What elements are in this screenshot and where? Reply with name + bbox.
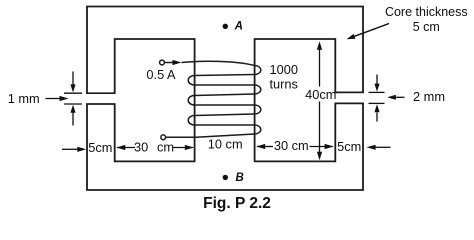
dimension 2 mm up arrow bbox=[376, 113, 378, 122]
terminal T2 bbox=[161, 135, 166, 140]
current direction arrowhead bbox=[173, 60, 182, 65]
svg-text:5cm: 5cm bbox=[337, 139, 361, 154]
dimension 1 mm down arrow bbox=[72, 72, 74, 86]
core outer boundary bbox=[87, 7, 363, 191]
dimension 2 mm upper tick bbox=[369, 91, 385, 93]
core thickness pointer arrow bbox=[355, 24, 390, 37]
svg-text:Core thickness: Core thickness bbox=[385, 5, 468, 19]
svg-text:0.5 A: 0.5 A bbox=[146, 67, 176, 82]
svg-text:cm: cm bbox=[157, 139, 174, 154]
svg-text:Fig. P 2.2: Fig. P 2.2 bbox=[203, 195, 271, 212]
svg-text:turns: turns bbox=[270, 76, 298, 91]
svg-text:10 cm: 10 cm bbox=[208, 136, 243, 151]
air gap G1 upper cap (left leg) bbox=[86, 92, 115, 94]
air gap G2 upper cap (right leg) bbox=[335, 91, 364, 93]
svg-text:A: A bbox=[234, 20, 243, 32]
svg-text:1 mm: 1 mm bbox=[8, 91, 40, 106]
dimension 5cm left pointer arrow bbox=[62, 148, 78, 150]
dimension 40cm arrow bbox=[319, 49, 321, 87]
dimension 2 mm lower tick bbox=[369, 102, 385, 104]
coil N1 winding bbox=[166, 61, 261, 137]
svg-text:1000: 1000 bbox=[270, 62, 298, 77]
dimension 2 mm pointer arrow bbox=[387, 95, 396, 100]
node A marker bbox=[223, 24, 228, 29]
dimension 1 mm upper tick bbox=[64, 92, 82, 94]
dimension 30 cm right arrows bbox=[257, 146, 273, 148]
air gap G2 lower cap (right leg) bbox=[335, 102, 364, 104]
left window bbox=[115, 39, 195, 161]
dimension 30 cm left arrows bbox=[117, 147, 135, 149]
node B marker bbox=[223, 175, 228, 180]
dimension 5cm right pointer arrow bbox=[367, 145, 376, 150]
wire top lead stub bbox=[164, 62, 173, 64]
dimension 1 mm lower tick bbox=[64, 103, 82, 105]
svg-text:2 mm: 2 mm bbox=[413, 89, 445, 104]
terminal T1 bbox=[160, 60, 165, 65]
svg-text:40cm: 40cm bbox=[305, 87, 336, 102]
dimension 1 mm pointer arrow bbox=[46, 98, 61, 100]
svg-text:5cm: 5cm bbox=[88, 140, 112, 155]
svg-text:30 cm: 30 cm bbox=[274, 138, 309, 153]
svg-text:B: B bbox=[235, 172, 243, 184]
svg-text:30: 30 bbox=[134, 139, 148, 154]
right window bbox=[255, 39, 336, 161]
air gap G1 lower cap (left leg) bbox=[86, 103, 115, 105]
svg-text:5 cm: 5 cm bbox=[413, 20, 440, 34]
dimension 2 mm down arrow bbox=[376, 75, 378, 85]
dimension 1 mm up arrow bbox=[72, 112, 74, 126]
